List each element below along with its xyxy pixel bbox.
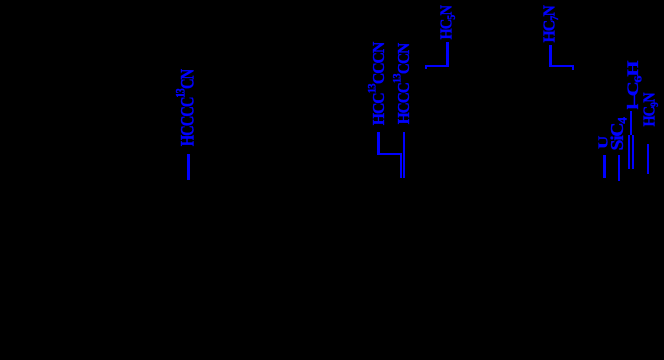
- label HCC13CCCN: [365, 43, 387, 125]
- label l-C6H: [626, 61, 646, 109]
- wire: left prong of l-C6H fork: [628, 135, 630, 169]
- wire: vertical under HC7N: [549, 45, 552, 67]
- wire: horizontal elbow of HC5N: [425, 65, 449, 68]
- wire: horizontal joining bracket: [377, 153, 402, 155]
- wire: lower-left vertical of bracket: [400, 155, 402, 177]
- label HC5N: [438, 6, 459, 39]
- label HCCCC13CN: [172, 70, 197, 146]
- wire: tick line under U: [603, 155, 605, 178]
- label U: [598, 136, 611, 148]
- wire: tick line under HC9N: [647, 144, 649, 175]
- wire: tick line under HCCCC13CN: [187, 154, 190, 181]
- wire: left vertical from HCC13CCCN: [377, 132, 379, 156]
- label SiC4: [610, 118, 633, 150]
- wire: horizontal elbow of HC7N: [549, 65, 574, 68]
- label HC7N: [541, 6, 562, 42]
- wire: down tick at end of HC7N elbow: [572, 67, 574, 70]
- wire: stem under l-C6H: [630, 111, 633, 135]
- label HC9N: [642, 93, 663, 126]
- wire: vertical under HC5N: [446, 42, 449, 67]
- wire: down tick at end of HC5N elbow: [425, 67, 427, 69]
- wire: right prong of l-C6H fork: [632, 135, 634, 169]
- wire: right vertical from HCCC13CCN: [403, 132, 405, 178]
- wire: tick line under SiC4: [618, 155, 620, 181]
- label HCCC13CCN: [390, 44, 412, 124]
